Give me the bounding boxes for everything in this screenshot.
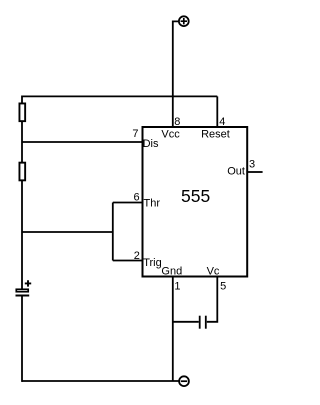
wire pin 4 stub: [216, 96, 218, 127]
capacitor C2: [200, 316, 206, 329]
wire top horizontal Vcc rail to pin 4: [22, 95, 217, 97]
svg-text:Vc: Vc: [207, 266, 220, 278]
svg-text:Vcc: Vcc: [161, 128, 180, 140]
svg-text:Thr: Thr: [144, 197, 161, 209]
wire left vertical rail (top section): [21, 96, 23, 290]
capacitor C1 polarized: [16, 280, 32, 295]
svg-text:Out: Out: [227, 165, 245, 177]
wire node to pin 7 Dis: [22, 141, 143, 143]
svg-text:Dis: Dis: [143, 138, 159, 150]
+ battery terminal: [179, 16, 189, 26]
svg-text:6: 6: [134, 191, 140, 203]
svg-text:555: 555: [181, 186, 210, 206]
svg-text:8: 8: [174, 116, 180, 128]
svg-text:Gnd: Gnd: [161, 266, 182, 278]
wire left vertical rail (below capacitor C1): [21, 297, 23, 382]
svg-text:7: 7: [132, 128, 138, 140]
wire feed to Thr/Trig tee: [22, 231, 113, 233]
wire vertical link Thr-Trig: [112, 203, 114, 261]
resistor R2: [19, 163, 25, 181]
op-amp U1 555 IC body: [143, 127, 248, 277]
wire from + terminal down to pin 8 (Vcc net): [173, 21, 179, 127]
wire to pin 2 Trig: [113, 260, 143, 262]
svg-text:2: 2: [134, 250, 140, 262]
svg-text:4: 4: [219, 116, 225, 128]
svg-text:1: 1: [174, 280, 180, 292]
wire bottom horizontal to - terminal: [22, 380, 179, 382]
svg-text:Trig: Trig: [143, 257, 162, 269]
wire capacitor C2 left plate to Gnd wire: [173, 321, 199, 323]
wire pin 5 Vc down and left to capacitor C2: [207, 277, 218, 322]
svg-text:3: 3: [249, 158, 255, 170]
svg-text:Reset: Reset: [201, 128, 230, 140]
resistor R1: [19, 103, 25, 121]
wire pin 1 Gnd down to bottom rail: [172, 277, 174, 382]
pin 3 Out stub: [247, 171, 262, 173]
svg-text:5: 5: [220, 280, 226, 292]
wire to pin 6 Thr: [113, 202, 143, 204]
- battery terminal: [179, 376, 189, 386]
